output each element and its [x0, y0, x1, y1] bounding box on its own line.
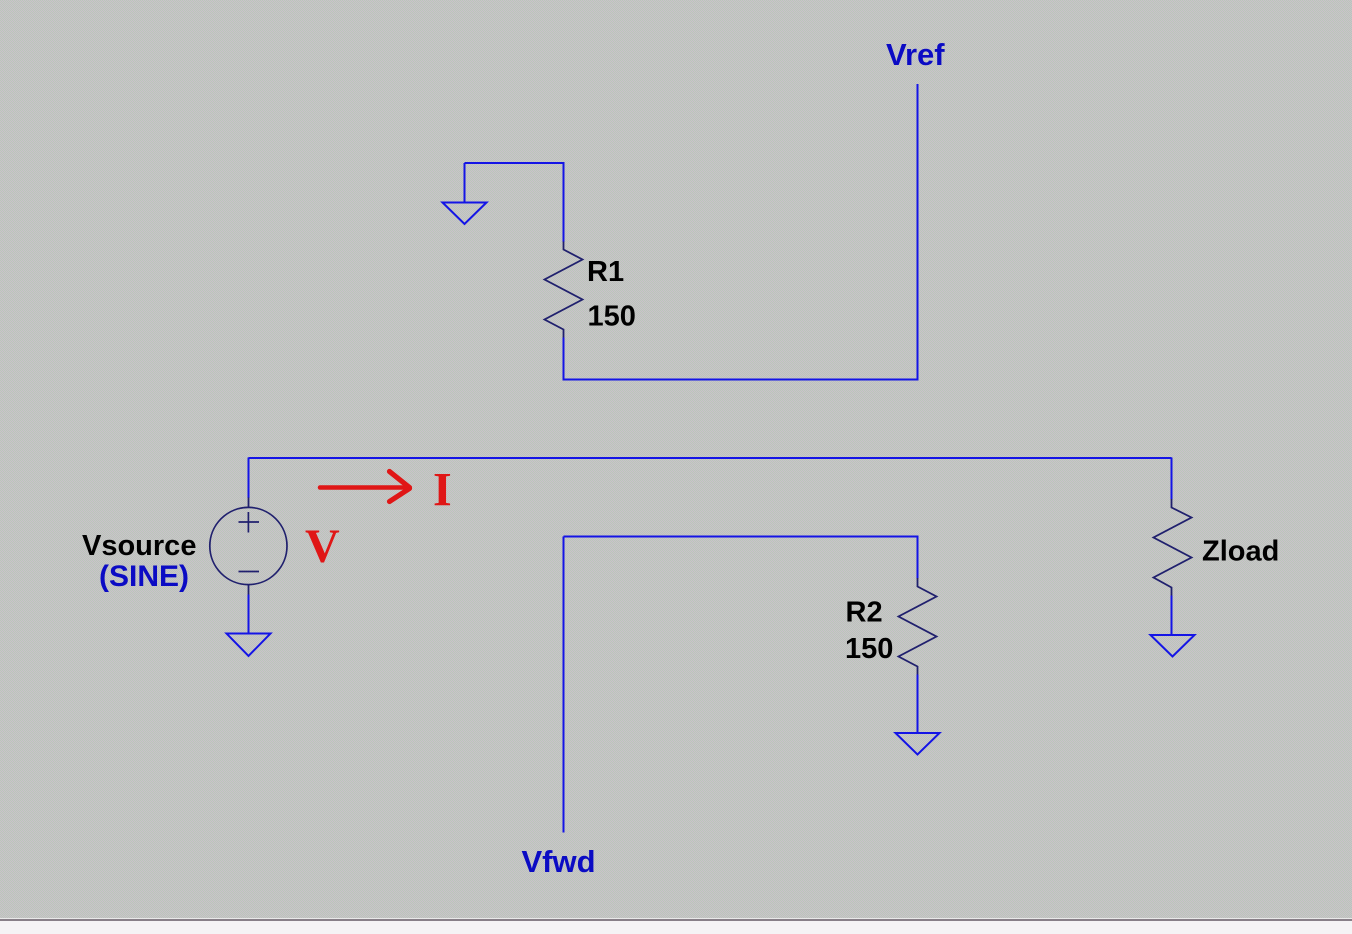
ground — [443, 203, 487, 225]
resistor R1 — [545, 242, 583, 339]
svg-text:Vfwd: Vfwd — [522, 844, 596, 879]
wire — [917, 675, 919, 734]
svg-text:Vsource: Vsource — [82, 530, 196, 562]
resistor R2 — [899, 578, 937, 675]
wire — [249, 457, 1172, 459]
wire — [464, 163, 466, 203]
svg-text:Zload: Zload — [1202, 536, 1279, 568]
wire — [1171, 596, 1173, 636]
voltage source Vsource — [210, 498, 287, 596]
svg-text:(SINE): (SINE) — [99, 560, 189, 593]
wire — [1171, 458, 1173, 500]
ground — [1151, 635, 1195, 657]
svg-text:R2: R2 — [846, 597, 883, 629]
wire — [564, 84, 918, 380]
resistor Zload — [1154, 499, 1192, 596]
wire — [563, 338, 565, 381]
status bar — [0, 918, 1352, 934]
wire — [248, 458, 250, 499]
svg-text:I: I — [433, 464, 452, 517]
current arrow I — [320, 472, 410, 502]
ground — [896, 733, 940, 755]
wire — [248, 595, 250, 634]
wire — [564, 536, 919, 538]
svg-text:R1: R1 — [587, 256, 624, 288]
wire — [563, 537, 565, 833]
svg-text:Vref: Vref — [886, 37, 945, 72]
svg-text:V: V — [305, 520, 340, 573]
svg-text:150: 150 — [845, 633, 893, 665]
ground — [227, 634, 271, 657]
wire — [917, 537, 919, 579]
svg-text:150: 150 — [588, 301, 636, 333]
wire — [465, 163, 564, 242]
